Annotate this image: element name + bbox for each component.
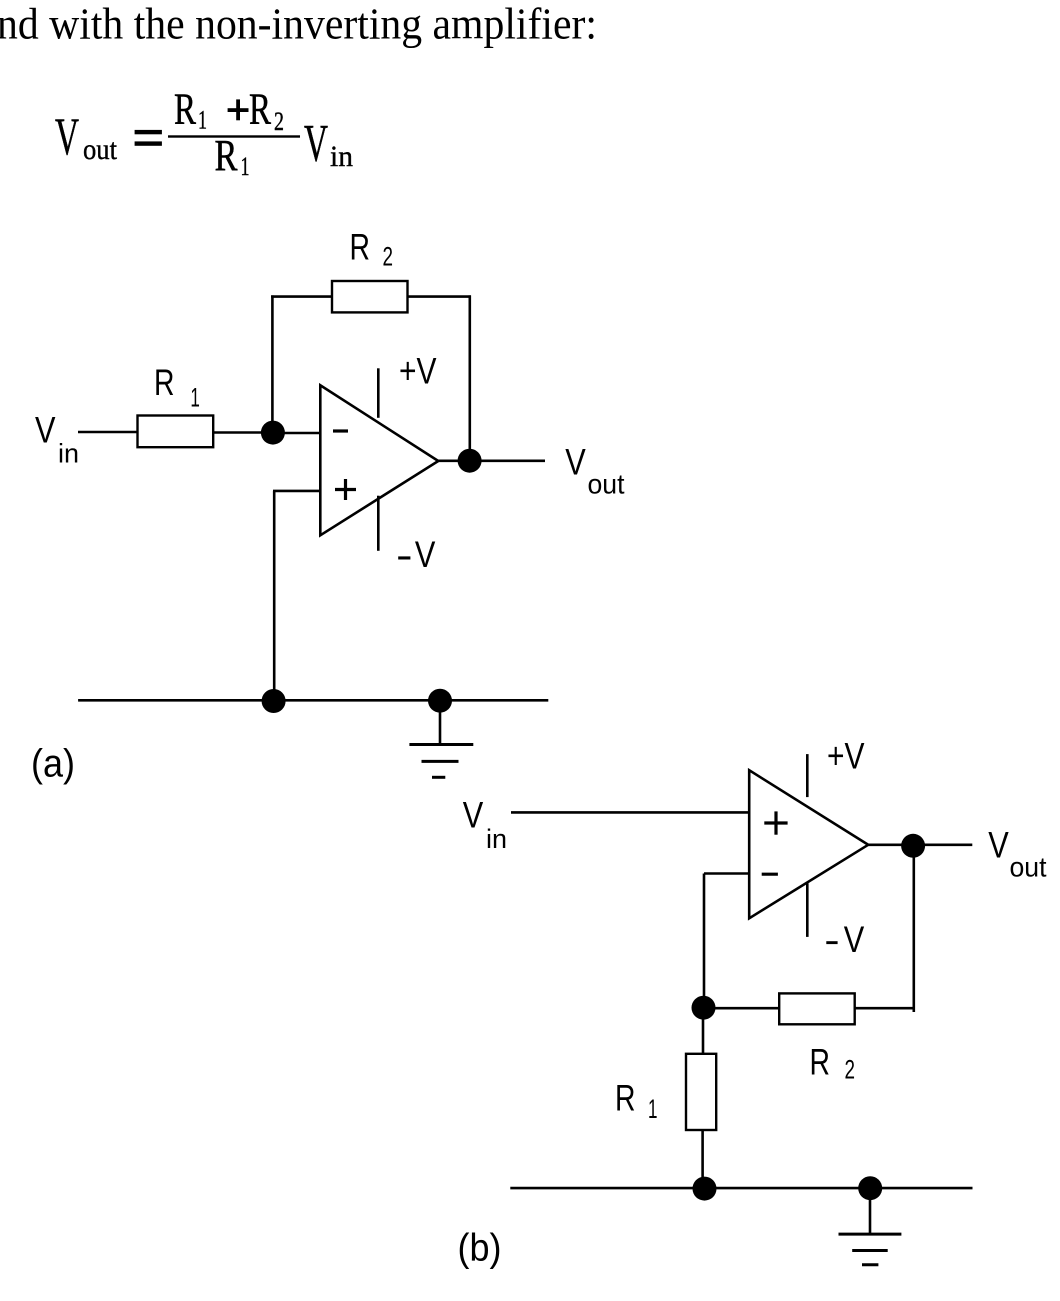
svg-text:V: V — [304, 114, 328, 172]
svg-text:in: in — [486, 824, 507, 854]
wire Vin to op-amp plus input (b) — [511, 811, 750, 814]
svg-text:(a): (a) — [31, 743, 75, 786]
-V supply pin line (b) — [806, 883, 809, 937]
formula Vout — [55, 108, 118, 166]
wire plus input riser down to ground rail (a) — [273, 491, 276, 701]
label -V (a) — [398, 534, 435, 575]
svg-text:R: R — [810, 1042, 831, 1083]
svg-text:1: 1 — [198, 106, 207, 135]
op-amp U2 triangle (b) — [749, 770, 868, 918]
svg-text:out: out — [83, 133, 118, 166]
svg-text:2: 2 — [845, 1054, 856, 1084]
svg-text:V: V — [988, 825, 1009, 866]
svg-text:R: R — [249, 85, 271, 134]
wire R1 down to ground rail (b) — [701, 1130, 704, 1188]
wire inverting input leftwards (b) — [704, 872, 750, 875]
wire output riser down to R2 (b) — [912, 846, 915, 1012]
wire R2 right lead — [408, 295, 472, 298]
op-amp U1 triangle (a) — [320, 385, 438, 535]
svg-text:in: in — [330, 140, 353, 173]
wire inverting riser down to feedback node (b) — [703, 874, 706, 1009]
resistor R2 (a) — [332, 281, 408, 312]
formula Vin — [304, 114, 353, 173]
ground symbol (a) — [409, 745, 473, 778]
svg-text:+V: +V — [827, 735, 865, 776]
svg-text:V: V — [35, 410, 56, 451]
node rail junction 2 (a) — [428, 689, 452, 713]
label Vout (b) — [988, 825, 1047, 883]
resistor R2 (b) — [779, 993, 855, 1024]
node inverting input junction — [261, 421, 285, 445]
svg-text:R: R — [174, 85, 196, 134]
plus sign at non-inverting input (a) — [335, 479, 356, 500]
svg-text:V: V — [565, 442, 586, 483]
label R1 (a) — [154, 362, 200, 412]
node rail junction 1 (a) — [262, 689, 286, 713]
wire R2 right lead (b) — [855, 1007, 914, 1010]
label Vin (a) — [35, 410, 79, 469]
svg-text:R: R — [350, 227, 371, 268]
wire node down to R1 (b) — [702, 1008, 705, 1054]
svg-text:1: 1 — [241, 152, 250, 181]
svg-text:V: V — [415, 534, 436, 575]
ground symbol (b) — [839, 1234, 902, 1265]
formula equals sign — [135, 130, 162, 146]
svg-text:R: R — [615, 1077, 636, 1118]
wire op-amp output (b) — [868, 843, 972, 846]
-V supply pin line (a) — [377, 496, 380, 551]
node feedback junction (b) — [692, 996, 716, 1020]
svg-text:V: V — [55, 108, 79, 166]
resistor R1 (b) — [686, 1054, 716, 1130]
wire output to Vout label — [437, 459, 545, 462]
svg-text:V: V — [463, 795, 484, 836]
wire R1 to node — [213, 431, 273, 434]
formula numerator R1+R2 — [174, 85, 284, 137]
node output (b) — [901, 834, 925, 858]
svg-text:1: 1 — [190, 382, 200, 412]
svg-text:R: R — [154, 362, 175, 403]
+V supply pin line (a) — [377, 368, 380, 418]
minus sign at inverting input (a) — [333, 429, 348, 432]
svg-text:(b): (b) — [458, 1227, 502, 1270]
wire op-amp plus input leftwards (a) — [273, 490, 321, 493]
svg-text:1: 1 — [648, 1094, 658, 1124]
wire node to R2 left lead (b) — [704, 1007, 780, 1010]
minus sign at inverting input (b) — [762, 873, 778, 876]
label R2 (a) — [350, 227, 394, 272]
svg-text:+V: +V — [399, 350, 437, 391]
formula denominator R1 — [215, 131, 250, 181]
wire node to op-amp minus input — [273, 432, 321, 435]
ground rail (a) — [78, 699, 548, 702]
svg-text:R: R — [215, 131, 239, 180]
svg-text:out: out — [588, 469, 625, 500]
resistor R1 (a) — [138, 416, 214, 448]
svg-text:2: 2 — [274, 107, 284, 136]
node rail junction 2 (b) — [858, 1176, 882, 1200]
wire node up to R2 (left feedback riser) — [271, 295, 274, 433]
node rail junction 1 (b) — [693, 1177, 717, 1201]
plus sign at non-inverting input (b) — [764, 811, 787, 834]
wire Vin to R1 — [78, 431, 139, 434]
label R2 (b) — [810, 1042, 856, 1085]
label Vout (a) — [565, 442, 625, 500]
svg-text:nd with the non-inverting ampl: nd with the non-inverting amplifier: — [0, 0, 597, 49]
svg-text:out: out — [1010, 852, 1047, 883]
ground rail (b) — [510, 1187, 972, 1190]
formula fraction bar — [168, 135, 300, 137]
svg-text:2: 2 — [383, 242, 394, 272]
node output (a) — [458, 449, 482, 473]
label -V (b) — [826, 919, 864, 960]
wire feedback right riser down to output node — [468, 295, 471, 461]
ground stem (b) — [869, 1188, 872, 1234]
svg-text:in: in — [58, 438, 79, 468]
svg-text:V: V — [844, 919, 865, 960]
label R1 (b) — [615, 1077, 658, 1124]
label Vin (b) — [463, 795, 507, 854]
+V supply pin line (b) — [806, 754, 809, 797]
ground stem (a) — [439, 701, 442, 745]
wire riser to R2 left lead — [271, 295, 332, 298]
